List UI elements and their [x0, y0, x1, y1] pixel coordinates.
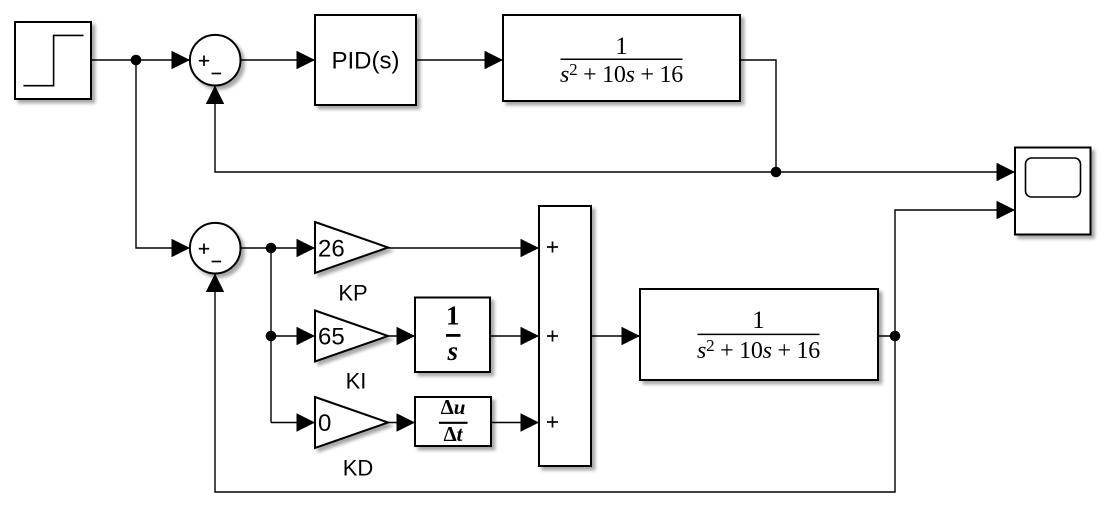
wire G1 output down to feedback line — [740, 60, 776, 172]
PID controller block U1 — [315, 15, 416, 105]
sum junction S2 — [190, 223, 241, 274]
gain block KP value 26 — [315, 222, 388, 273]
node E (G2 output junction) — [890, 331, 901, 342]
gain block KI value 65 — [315, 311, 388, 362]
svg-text:​s2 + 10s + 16: ​s2 + 10s + 16 — [697, 336, 820, 364]
gain block KD value 0 — [315, 397, 388, 448]
sum junction S1 — [190, 35, 241, 86]
svg-text:KD: KD — [343, 456, 374, 481]
svg-text:26: 26 — [318, 236, 345, 263]
svg-text:1: 1 — [752, 307, 765, 334]
wire adder to transfer function G2 — [591, 335, 640, 337]
node C (sum S2 output junction) — [266, 243, 277, 254]
wire node B to scope input 1 — [776, 171, 1015, 173]
wire elbow to gain KD — [271, 422, 315, 424]
wire G2 output to node E — [878, 335, 895, 337]
wire gain KI to integrator — [386, 335, 415, 337]
svg-text:Δt: Δt — [443, 422, 463, 446]
node B (output junction top) — [771, 167, 782, 178]
node D (KI branch junction) — [266, 331, 277, 342]
svg-text:KP: KP — [338, 281, 367, 306]
wire gain KP to adder — [388, 247, 539, 249]
svg-text:0: 0 — [318, 410, 331, 437]
wire integrator to adder — [490, 335, 539, 337]
node A (step branch junction) — [131, 55, 142, 66]
svg-text:KI: KI — [346, 369, 367, 394]
svg-text:1: 1 — [446, 301, 460, 331]
svg-text:1: 1 — [615, 33, 628, 60]
feedback wire to sum S2 minus input — [215, 274, 895, 492]
wire node D to gain KI — [271, 335, 315, 337]
wire sum S2 to gain KP — [241, 247, 316, 249]
svg-text:s: s — [446, 336, 458, 366]
wire distribution down — [270, 248, 272, 423]
scope block — [1015, 148, 1091, 235]
wire sum S1 to PID — [241, 59, 316, 61]
svg-text:65: 65 — [318, 324, 345, 351]
transfer function block G1 — [503, 15, 740, 101]
wire step output to sum S1 — [91, 59, 190, 61]
integrator block 1/s — [415, 298, 490, 373]
step source block — [15, 22, 91, 99]
wire derivative to adder — [491, 422, 539, 424]
wire node E up to scope input 2 — [895, 210, 1015, 336]
svg-text:Δu: Δu — [441, 395, 466, 419]
adder block — [539, 206, 591, 466]
transfer function block G2 — [640, 289, 878, 380]
derivative block du/dt — [415, 397, 491, 446]
wire branch down to sum S2 — [136, 60, 190, 248]
svg-text:PID(s): PID(s) — [332, 47, 400, 74]
wire gain KD to derivative — [388, 422, 415, 424]
wire PID to transfer function G1 — [416, 59, 503, 61]
svg-text:​s2 + 10s + 16: ​s2 + 10s + 16 — [560, 60, 683, 88]
feedback wire to sum S1 minus input — [215, 86, 776, 172]
